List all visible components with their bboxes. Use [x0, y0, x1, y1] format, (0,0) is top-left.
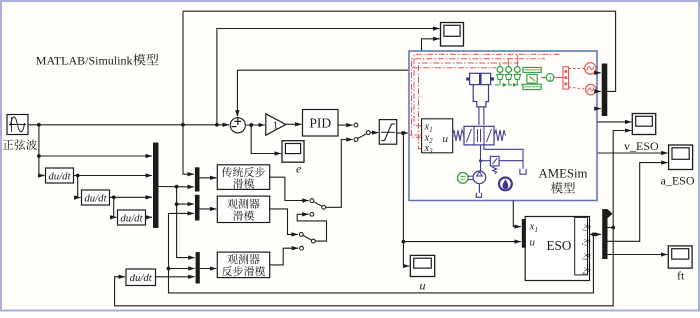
wire AMESim x1 out to ESO: [513, 201, 521, 227]
svg-text:u: u: [420, 279, 426, 293]
check valve units (green): [497, 67, 521, 85]
electric motor (green): [458, 173, 474, 184]
svg-text:AMESim: AMESim: [538, 167, 587, 181]
controller block 传统反步滑模: [217, 165, 269, 190]
wire switch S3 output to switch S2: [297, 214, 326, 241]
red dash u into block: [410, 134, 422, 136]
signal line x3 (red dash-dot): [419, 63, 520, 149]
wire muxC to 观测器反步滑模: [200, 268, 217, 270]
wire saturation to AMESim u input: [397, 132, 408, 134]
wire switch S1 to saturation: [371, 132, 379, 134]
scope top (reference vs actual): [441, 23, 464, 47]
wire u to ESO input: [403, 241, 520, 243]
label 正弦波: [3, 139, 37, 150]
signal line x2 (red dash-dot): [412, 59, 546, 138]
svg-text:u: u: [530, 237, 536, 249]
wire 观测器反步滑模 to switch S3: [270, 248, 299, 265]
svg-text:e: e: [296, 162, 302, 176]
sum junction (+/-): [230, 118, 245, 133]
green shaft dashed line: [495, 83, 523, 87]
mux Mux1 (reference vector): [153, 143, 159, 229]
wire top feedback loop: [183, 11, 616, 91]
mux MuxA: [195, 167, 200, 191]
scope v_ESO: [632, 114, 655, 135]
switch S2: [310, 199, 326, 217]
wire demux out1 to v_ESO and derivative loop: [608, 227, 614, 229]
derivative block du/dt #1: [46, 168, 74, 183]
gain block (1): [266, 114, 286, 135]
mux MuxB: [195, 195, 200, 221]
wires gauges into output mux: [596, 72, 601, 74]
wire AMESim v out to scope v_ESO: [598, 121, 632, 123]
switch S1: [354, 123, 370, 141]
wire du/dt1 out to mux1: [74, 175, 153, 177]
wire reference vector to muxB and muxC: [177, 187, 194, 205]
controller block 观测器滑模: [217, 196, 269, 222]
svg-text:1: 1: [549, 75, 552, 82]
scope e: [282, 141, 304, 163]
wire AMESim a out to scope a_ESO: [598, 152, 668, 154]
wire du/dt3 out to mux1: [146, 216, 153, 218]
wire sum to gain: [245, 124, 264, 126]
switch S3: [299, 233, 315, 251]
wire AMESim out to top scope input 2: [422, 39, 440, 51]
wire 观测器滑模 to switch S3: [270, 209, 298, 235]
wire mux1 output to muxA: [159, 186, 194, 188]
hydraulic cylinder: [466, 73, 494, 125]
wire AMESim position out to sum: [237, 70, 408, 116]
svg-text:a_ESO: a_ESO: [661, 174, 695, 188]
demux ESO outputs: [602, 209, 612, 259]
wire switch S2 output to switch S1: [326, 140, 353, 208]
signal line x1 (red dash-dot): [414, 54, 560, 125]
wire ESO states feedback to observer controllers: [169, 213, 594, 293]
wire demux out2 to a_ESO: [608, 163, 668, 242]
derivative block du/dt #3: [118, 210, 146, 225]
relief valve: [490, 156, 499, 174]
scope ft: [668, 246, 692, 268]
wire reference tap to top scope: [217, 29, 440, 125]
wire du/dt2 out to mux1: [110, 196, 153, 198]
svg-text:du/dt: du/dt: [48, 170, 71, 182]
red sensor manifold: [554, 67, 569, 89]
pump station (green): [523, 67, 546, 89]
controller block 观测器反步滑模: [217, 252, 269, 278]
wire gain to PID: [286, 123, 302, 125]
PID controller block: [303, 110, 339, 137]
hydraulic piping: [479, 145, 526, 174]
proportional valve: [453, 126, 506, 145]
svg-text:PID: PID: [309, 116, 331, 131]
wire ESO to demux: [590, 233, 602, 235]
mux AMESim outputs: [602, 64, 608, 117]
scope u: [410, 255, 434, 276]
svg-text:v_ESO: v_ESO: [624, 139, 659, 153]
wire du/dt1 to du/dt2: [78, 176, 81, 198]
wire du/dt4 to muxC: [156, 276, 195, 278]
green gauge circle: [546, 74, 554, 83]
svg-text:du/dt: du/dt: [84, 192, 107, 204]
svg-text:MATLAB/Simulink: MATLAB/Simulink: [36, 54, 133, 68]
red gauge 1: [569, 63, 596, 74]
AMESim subsystem frame: [409, 51, 597, 201]
svg-text:u: u: [443, 133, 449, 145]
wire sine tap down to mux1 and du/dt1: [38, 125, 40, 176]
pump: [473, 171, 486, 197]
wire ESO states to muxC: [169, 268, 195, 270]
wire state feedback from top loop into muxA: [183, 11, 194, 174]
red sensor stubs to check valves: [500, 54, 517, 66]
ESO block: [525, 217, 589, 281]
wire muxA to 传统反步滑模: [200, 177, 217, 179]
wire u branch down to u scope and ESO: [403, 133, 409, 266]
red dash valve command: [453, 135, 464, 137]
signal line aux (red dash-dot): [412, 67, 496, 69]
wire du/dt2 to du/dt3: [114, 197, 117, 217]
svg-text:du/dt: du/dt: [120, 212, 143, 224]
title MATLAB/Simulink模型: [36, 54, 158, 68]
wire sine to sum: [28, 124, 229, 126]
svg-text:ft: ft: [677, 269, 685, 283]
mux ESO inputs: [522, 219, 526, 248]
wire demux out3 to scope ft: [608, 254, 668, 256]
svg-text:ESO: ESO: [547, 238, 572, 253]
wire error to scope e: [251, 125, 281, 154]
wire 传统反步滑模 to switch S2: [270, 177, 309, 200]
derivative block du/dt #4: [126, 269, 156, 286]
wire PID to switch S1: [338, 124, 353, 126]
svg-text:du/dt: du/dt: [130, 272, 153, 284]
scope a_ESO: [669, 145, 693, 170]
sine wave source 正弦波: [7, 115, 28, 135]
red gauge 2: [569, 84, 596, 94]
wire muxB to 观测器滑模: [200, 208, 217, 210]
derivative block du/dt #2: [82, 190, 110, 205]
state/input interface block x1 x2 x3 u: [422, 119, 453, 156]
svg-text:1: 1: [273, 120, 279, 132]
label AMESim 模型: [538, 167, 587, 194]
ESO estimated states column: [581, 224, 593, 275]
oil tank (droplet): [499, 178, 512, 191]
mux MuxC: [196, 252, 200, 283]
saturation block: [379, 120, 396, 145]
